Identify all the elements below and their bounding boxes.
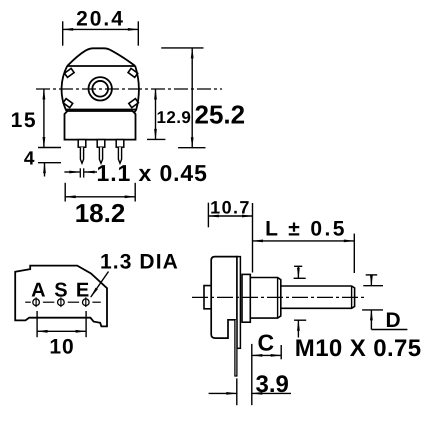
notch lower-left	[63, 99, 73, 108]
threaded bushing	[250, 278, 280, 319]
dim D bottom extension line	[362, 309, 383, 311]
dim 10 extension ticks	[36, 311, 38, 337]
svg-text:18.2: 18.2	[75, 198, 126, 228]
centerline horizontal front view	[36, 88, 222, 90]
notch lower-right	[129, 99, 139, 108]
svg-text:1.1 x 0.45: 1.1 x 0.45	[97, 160, 208, 186]
dim C extension tick right	[280, 345, 282, 359]
pin 2 front view	[97, 140, 105, 164]
terminal hole E	[83, 297, 90, 307]
dim 25.2 line	[191, 48, 193, 148]
centerline horizontal side view	[192, 296, 364, 298]
dim 25.2 bottom reference line	[178, 147, 205, 149]
dim 1.1 left arrow	[64, 171, 79, 173]
rear cover plate	[237, 257, 240, 349]
dim 15 line	[43, 89, 45, 148]
dim 3.9 right leader arrow	[252, 392, 291, 394]
svg-text:A: A	[31, 280, 45, 302]
rear tab	[204, 286, 212, 309]
dim 1.1 pin edge ticks	[79, 168, 81, 177]
dim 18.2 line	[65, 196, 135, 198]
bushing chamfer line	[277, 278, 279, 319]
svg-text:3.9: 3.9	[256, 371, 289, 398]
mounting washer	[242, 274, 250, 322]
svg-text:1.3 DIA: 1.3 DIA	[100, 251, 179, 274]
svg-text:10.7: 10.7	[210, 198, 251, 218]
pin 1 front view	[78, 140, 86, 164]
terminal hole S	[58, 297, 65, 307]
dim L extension tick right	[353, 234, 355, 273]
dim 25.2 top reference line	[161, 47, 203, 49]
svg-text:E: E	[76, 280, 89, 302]
dim 3.9 left leader arrow	[209, 392, 237, 394]
svg-text:12.9: 12.9	[157, 108, 192, 127]
lower rectangular base front view	[65, 111, 136, 140]
dim 10.7 extension ticks	[207, 203, 209, 228]
dim 1.1 right arrow	[84, 171, 97, 173]
terminal pin side view	[235, 320, 237, 376]
thread top extension line	[294, 277, 306, 279]
svg-text:20.4: 20.4	[76, 7, 125, 30]
leader 1.3 DIA	[91, 272, 109, 298]
dim 3.9 extension tick left	[236, 378, 238, 405]
shaft bushing rings front view	[89, 77, 112, 100]
thread top arrow	[297, 266, 299, 278]
svg-text:D: D	[386, 309, 401, 332]
pin 3 front view	[116, 140, 124, 164]
svg-text:10: 10	[49, 336, 74, 359]
dim D bottom arrow	[370, 310, 372, 330]
dim C extension tick left (shared with 3.9)	[251, 344, 253, 405]
hole centerline dashes	[25, 301, 101, 303]
notch upper-left	[64, 68, 74, 77]
dim D top arrow bar	[366, 274, 378, 276]
dim 20.4 extension ticks	[62, 21, 64, 45]
dim C line	[252, 354, 281, 356]
upper chord line	[67, 65, 135, 67]
svg-text:M10 X 0.75: M10 X 0.75	[295, 335, 422, 362]
svg-text:L ± 0.5: L ± 0.5	[265, 217, 347, 240]
dim 4 arrow below	[44, 163, 46, 177]
dim 12.9 bottom tick	[147, 138, 165, 140]
dim D label leader	[371, 329, 407, 331]
pot body outline front view	[62, 48, 139, 113]
dim 20.4 line	[63, 28, 139, 30]
base outline bottom view	[15, 266, 107, 327]
shaft end chamfer line	[351, 286, 353, 308]
thread bottom arrow	[297, 320, 299, 337]
dim 12.9 line	[155, 89, 157, 139]
thread top arrow bar	[294, 265, 302, 267]
shaft	[281, 286, 355, 308]
dim 18.2 extension ticks	[64, 183, 66, 202]
notch upper-right	[128, 68, 138, 77]
thread bottom extension line	[294, 319, 306, 321]
dim D top extension line	[363, 285, 383, 287]
dim L +/- 0.5 line	[253, 240, 355, 242]
svg-text:15: 15	[11, 109, 37, 132]
dim D top arrow	[370, 275, 372, 286]
dim 10.7 line	[208, 215, 252, 217]
svg-text:4: 4	[24, 149, 35, 170]
dim 10 line	[37, 330, 86, 332]
terminal hole A	[33, 297, 40, 307]
lower chord line	[66, 109, 136, 111]
dim 4 lower tick	[38, 162, 61, 164]
svg-text:S: S	[54, 280, 67, 302]
svg-text:C: C	[257, 329, 274, 355]
dim 15 bottom tick	[38, 147, 61, 149]
body side view	[211, 257, 237, 339]
svg-text:25.2: 25.2	[195, 100, 246, 130]
